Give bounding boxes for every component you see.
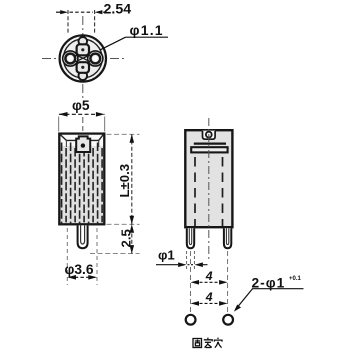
recess walls: [66, 140, 98, 147]
dimension 4 lower line: [191, 301, 200, 306]
right view body: [185, 130, 232, 227]
svg-text:φ1: φ1: [158, 248, 175, 263]
left ring: [63, 51, 78, 66]
center bottom blob: [77, 62, 89, 73]
kanji 定: [204, 338, 212, 348]
phi3.6 extension lines: [66, 228, 68, 285]
hidden lines: [194, 157, 196, 226]
top view inner circle: [63, 39, 102, 78]
kanji 固: [193, 339, 202, 348]
dimension 2.54 line and arrows: [56, 11, 61, 13]
knurl texture: [62, 143, 103, 226]
top recess slants: [60, 135, 103, 141]
dimension phi5 line: [59, 113, 105, 115]
phi1 dimension: [156, 264, 178, 266]
svg-text:2.54: 2.54: [104, 1, 132, 17]
center top blob: [77, 44, 89, 55]
front view body: [59, 134, 104, 225]
beam line: [194, 143, 226, 145]
centerline between views: [82, 117, 84, 131]
left leg: [187, 228, 194, 248]
beam rect: [191, 147, 227, 152]
dimension 2.54 extension lines: [67, 10, 69, 34]
turret: [76, 136, 90, 152]
svg-text:4: 4: [205, 269, 213, 283]
phi5 extension lines: [58, 117, 60, 132]
svg-text:2.5: 2.5: [119, 229, 134, 247]
right view centerline: [208, 118, 210, 260]
kanji 穴: [214, 338, 222, 348]
svg-text:φ1.1: φ1.1: [130, 22, 164, 38]
front pin inner: [81, 225, 85, 244]
svg-text:4: 4: [205, 290, 213, 304]
front pin outer: [78, 225, 88, 248]
front view top white band: [61, 135, 103, 146]
top view outer circle: [60, 35, 106, 81]
L dimension line: [131, 134, 133, 253]
rotor small circle: [206, 132, 212, 138]
top view horizontal centerline: [42, 58, 124, 60]
leader to phi1.1: [100, 37, 125, 50]
svg-text:φ3.6: φ3.6: [65, 262, 94, 277]
top pin circle: [79, 37, 88, 46]
left fixing hole: [186, 315, 196, 325]
L dimension extension lines: [107, 133, 140, 135]
top notch arc: [203, 131, 216, 140]
right ring: [88, 51, 103, 66]
svg-text:L±0.3: L±0.3: [117, 164, 132, 198]
bowtie strokes: [76, 55, 91, 62]
right fixing hole: [223, 315, 233, 325]
svg-text:+0.1: +0.1: [289, 276, 302, 282]
phi3.6 dimension line: [69, 276, 95, 278]
right leg: [224, 228, 231, 248]
top view vertical centerline: [82, 16, 84, 99]
leader to right hole: [236, 289, 253, 310]
leg centerlines to holes: [190, 251, 192, 314]
recess horizontal line: [66, 139, 98, 141]
phi1 ext lines: [186, 251, 188, 271]
svg-text:φ5: φ5: [72, 98, 90, 113]
bottom pin circle: [79, 72, 88, 81]
dimension 4 upper line: [191, 280, 200, 285]
